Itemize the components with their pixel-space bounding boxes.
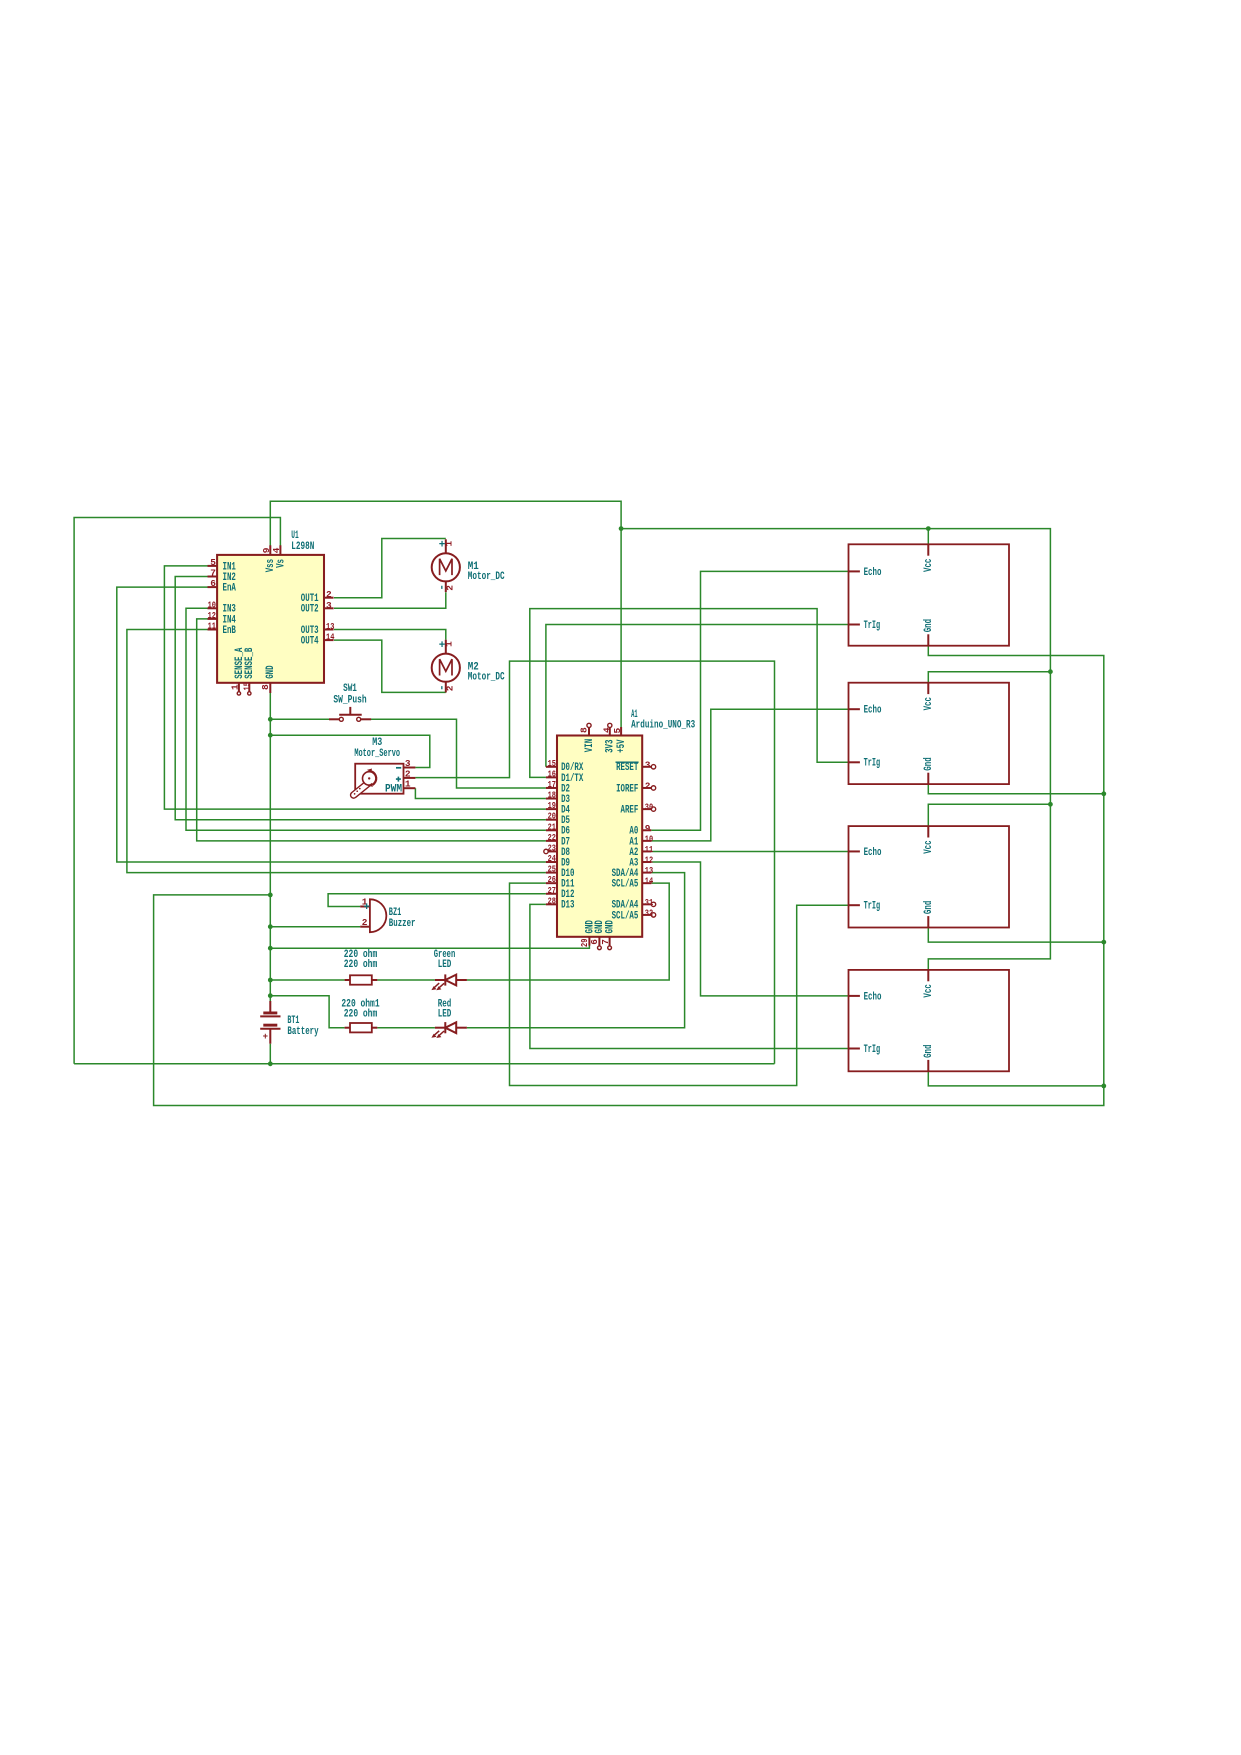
svg-text:220 ohm: 220 ohm xyxy=(344,959,378,971)
A1 pin D1/TX (16) xyxy=(546,768,584,784)
wire IN3 to D6 xyxy=(186,608,546,830)
sonar sensor 1 pin Echo xyxy=(849,567,882,579)
resistor green labels xyxy=(344,949,378,971)
wire GND to servo pin3 xyxy=(270,735,430,767)
U1 pin EnA (6) xyxy=(208,578,237,594)
svg-text:LED: LED xyxy=(438,959,452,971)
svg-text:GND: GND xyxy=(265,665,277,679)
U1 pin Vss (9) xyxy=(261,545,277,572)
svg-text:Motor_DC: Motor_DC xyxy=(468,571,505,583)
svg-text:Vcc: Vcc xyxy=(923,697,935,710)
sonar sensor 1 pin Vcc xyxy=(923,544,935,572)
sonar sensor 2 body xyxy=(849,683,1010,784)
wire A3 to Echo4 xyxy=(651,862,849,996)
A1 pin +5V (5) xyxy=(612,727,628,753)
junction at 1050.4,804.3 xyxy=(1048,802,1053,807)
svg-text:17: 17 xyxy=(548,779,557,790)
M1 labels xyxy=(468,561,505,583)
wire A0 to Echo1 xyxy=(651,571,849,830)
wire GND to red resistor xyxy=(270,996,344,1028)
sonar sensor 1 pin Trig xyxy=(849,620,881,632)
junction at 270.3,948.2 xyxy=(268,946,273,951)
svg-text:2: 2 xyxy=(326,589,332,600)
svg-text:1: 1 xyxy=(443,641,454,647)
wire GND to green resistor xyxy=(270,979,344,981)
svg-text:Echo: Echo xyxy=(864,705,882,717)
svg-text:VIN: VIN xyxy=(584,739,596,752)
wire Vcc3 link xyxy=(928,804,1050,826)
wire GND to Arduino GND29 xyxy=(270,946,589,949)
battery BT1 xyxy=(260,1001,280,1044)
wire battery bottom stub xyxy=(269,1044,271,1064)
wire OUT3 to M2 plus xyxy=(334,630,446,640)
svg-text:L298N: L298N xyxy=(291,541,314,553)
svg-text:LED: LED xyxy=(438,1009,452,1021)
A1 pin D11 (26) xyxy=(546,874,575,890)
svg-text:14: 14 xyxy=(645,876,654,887)
svg-text:4: 4 xyxy=(271,547,282,553)
junction at 621.1,528.6 xyxy=(619,526,624,531)
junction at 1103.8,1085.9 xyxy=(1101,1084,1106,1089)
svg-text:21: 21 xyxy=(548,821,557,832)
svg-text:14: 14 xyxy=(326,632,335,643)
resistor red labels xyxy=(341,999,379,1021)
svg-text:4: 4 xyxy=(601,727,612,733)
U1 pin IN4 (12) xyxy=(208,610,237,626)
sonar sensor 4 body xyxy=(849,970,1010,1071)
svg-text:11: 11 xyxy=(645,844,654,855)
junction at 270.3,995.7 xyxy=(268,993,273,998)
svg-text:SW1: SW1 xyxy=(343,683,357,695)
svg-text:25: 25 xyxy=(548,864,557,875)
U1 pin OUT3 (13) xyxy=(301,621,335,637)
wire battery plus row xyxy=(74,1063,774,1065)
wire OUT1 to M1 plus xyxy=(334,539,446,598)
junction at 270.3,735.2 xyxy=(268,733,273,738)
svg-text:23: 23 xyxy=(548,842,557,853)
U1 pin SENSE_A (1) unconnected xyxy=(230,647,246,695)
svg-text:2: 2 xyxy=(445,585,456,591)
wire EnA to D9 xyxy=(117,587,546,862)
wire A1 to Echo2 xyxy=(651,709,849,841)
svg-text:EnA: EnA xyxy=(223,583,237,595)
BT1 labels xyxy=(287,1015,318,1038)
wire D11 to Trig3 xyxy=(510,883,850,1085)
U1 pin IN2 (7) xyxy=(208,568,236,584)
wire D1/TX to Trig2 xyxy=(530,609,850,778)
svg-text:+5V: +5V xyxy=(616,739,628,753)
wire EnB to D10 xyxy=(127,630,546,873)
junction at 270.3,926.7 xyxy=(268,924,273,929)
svg-text:PWM: PWM xyxy=(385,783,402,795)
A1 pin AREF (30) xyxy=(621,802,656,817)
wire red resistor to LED xyxy=(377,1027,435,1029)
A1 pin IOREF (2) xyxy=(616,780,656,795)
switch SW1 SW_Push xyxy=(329,707,371,721)
A1 pin A1 (10) xyxy=(629,833,653,848)
M3 pin 2 plus xyxy=(396,768,416,781)
svg-text:TrIg: TrIg xyxy=(864,758,881,770)
A1 pin A0 (9) xyxy=(629,823,651,838)
svg-text:13: 13 xyxy=(326,621,335,632)
sonar sensor 2 pin Vcc xyxy=(923,683,935,711)
svg-text:15: 15 xyxy=(548,758,557,769)
svg-text:3: 3 xyxy=(326,600,332,611)
svg-text:9: 9 xyxy=(645,823,651,834)
A1 pin 3V3 (4) unconnected xyxy=(601,723,616,753)
sonar sensor 3 body xyxy=(849,826,1010,927)
svg-text:28: 28 xyxy=(548,895,557,906)
svg-text:5: 5 xyxy=(210,557,216,568)
sonar sensor 3 pin Echo xyxy=(849,847,882,859)
LED green xyxy=(431,974,467,990)
svg-text:2: 2 xyxy=(445,685,456,691)
wire Vcc2 link xyxy=(928,672,1050,683)
A1 pin GND (6) unconnected xyxy=(589,920,606,950)
LED red xyxy=(431,1022,467,1038)
green LED labels xyxy=(434,949,456,971)
U1 reference label xyxy=(291,530,314,553)
U1 pin OUT2 (3) xyxy=(301,600,334,616)
svg-text:26: 26 xyxy=(548,874,557,885)
wire +5V rail to sonar Vcc column xyxy=(621,529,1050,970)
A1 pin VIN (8) unconnected xyxy=(579,723,596,752)
svg-text:32: 32 xyxy=(645,907,654,918)
wire GND bus vertical xyxy=(269,693,271,1001)
A1 pin SCL/A5 (32) xyxy=(612,907,656,922)
wire servo PWM to D3 xyxy=(415,788,546,798)
svg-text:22: 22 xyxy=(548,832,557,843)
A1 pin D7 (22) xyxy=(546,832,570,848)
sonar sensor 4 pin Echo xyxy=(849,991,882,1003)
svg-text:220 ohm: 220 ohm xyxy=(344,1009,378,1021)
svg-text:2: 2 xyxy=(645,780,651,791)
resistor 220 ohm1 (red LED) xyxy=(345,1023,378,1032)
A1 pin A2 (11) xyxy=(629,844,653,859)
svg-text:Gnd: Gnd xyxy=(923,901,935,914)
BZ1 labels xyxy=(389,907,416,930)
svg-text:OUT2: OUT2 xyxy=(301,604,319,616)
wire Gnd4 link xyxy=(928,1070,1104,1086)
A1 pin GND (29) xyxy=(579,920,596,947)
svg-text:SCL/A5: SCL/A5 xyxy=(612,879,639,891)
svg-text:11: 11 xyxy=(208,621,217,632)
sonar sensor 1 body xyxy=(849,544,1010,645)
svg-text:30: 30 xyxy=(645,802,654,813)
A1 pin SCL/A5 (14) xyxy=(612,876,654,891)
svg-text:Vcc: Vcc xyxy=(923,840,935,853)
svg-text:AREF: AREF xyxy=(621,805,639,817)
wire GND bottom loop xyxy=(154,646,1104,1106)
A1 pin D3 (18) xyxy=(546,790,570,806)
svg-text:1: 1 xyxy=(405,779,411,790)
svg-text:Arduino_UNO_R3: Arduino_UNO_R3 xyxy=(631,719,695,731)
svg-text:Battery: Battery xyxy=(287,1026,318,1038)
svg-text:15: 15 xyxy=(241,682,252,691)
svg-text:Gnd: Gnd xyxy=(923,619,935,632)
svg-text:Gnd: Gnd xyxy=(923,757,935,770)
wire IN1 to D4 xyxy=(164,566,546,809)
svg-text:7: 7 xyxy=(210,568,216,579)
A1 pin D2 (17) xyxy=(546,779,570,795)
A1 pin SDA/A4 (31) xyxy=(612,897,656,912)
svg-text:12: 12 xyxy=(208,610,217,621)
svg-text:TrIg: TrIg xyxy=(864,620,881,632)
svg-text:Vcc: Vcc xyxy=(923,559,935,572)
motor M2 Motor_DC xyxy=(432,640,460,693)
red LED labels xyxy=(438,999,452,1021)
sonar sensor 4 pin Gnd xyxy=(923,1045,935,1072)
A1 pin D8 (23) xyxy=(544,842,570,858)
sonar sensor 3 pin Gnd xyxy=(923,901,935,928)
wire IN2 to D5 xyxy=(175,577,546,820)
sonar sensor 4 pin Vcc xyxy=(923,970,935,998)
svg-text:18: 18 xyxy=(548,790,557,801)
wire OUT2 to M1 minus xyxy=(334,592,446,608)
A1 pin A3 (12) xyxy=(629,855,653,870)
svg-text:3: 3 xyxy=(645,759,651,770)
A1 pin D9 (24) xyxy=(546,853,570,869)
wire SW1 to D2 xyxy=(371,719,546,788)
svg-text:+: + xyxy=(263,1032,268,1042)
U1 pin IN1 (5) xyxy=(208,557,237,573)
svg-text:19: 19 xyxy=(548,800,557,811)
wire buzzer pin1 to D12 xyxy=(328,894,546,907)
svg-text:Gnd: Gnd xyxy=(923,1045,935,1058)
wire D0/RX to Trig1 xyxy=(546,625,850,767)
svg-text:13: 13 xyxy=(645,865,654,876)
svg-text:RESET: RESET xyxy=(616,762,638,774)
svg-text:7: 7 xyxy=(600,939,611,945)
wire OUT4 to M2 minus xyxy=(334,640,446,692)
sonar sensor 3 pin Trig xyxy=(849,901,881,913)
wire Gnd3 link xyxy=(928,926,1104,942)
junction at 270.3,980 xyxy=(268,978,273,983)
buzzer BZ1 xyxy=(360,897,386,933)
U1 pin Vs (4) xyxy=(271,545,287,568)
A1 pin GND (7) unconnected xyxy=(600,920,617,950)
svg-text:TrIg: TrIg xyxy=(864,1044,881,1056)
svg-text:16: 16 xyxy=(548,768,557,779)
M2 labels xyxy=(468,662,505,684)
wire buzzer pin2 to GND xyxy=(270,926,360,928)
wire battery plus to Vs xyxy=(74,518,280,1064)
A1 pin D0/RX (15) xyxy=(546,758,584,774)
U1 pin SENSE_B (15) unconnected xyxy=(241,647,256,695)
junction at 1103.8,793.8 xyxy=(1101,791,1106,796)
svg-text:27: 27 xyxy=(548,885,557,896)
M3 labels xyxy=(354,737,400,760)
svg-text:Echo: Echo xyxy=(864,991,882,1003)
M3 pin 1 PWM xyxy=(385,779,415,796)
svg-text:12: 12 xyxy=(645,855,654,866)
svg-text:OUT4: OUT4 xyxy=(301,636,319,648)
sonar sensor 2 pin Echo xyxy=(849,705,882,717)
junction at 270.3,1063.8 xyxy=(268,1061,273,1066)
svg-text:SENSE_B: SENSE_B xyxy=(244,647,256,678)
A1 pin D10 (25) xyxy=(546,864,575,880)
svg-text:+: + xyxy=(363,902,370,914)
svg-text:6: 6 xyxy=(589,939,600,945)
svg-text:Motor_Servo: Motor_Servo xyxy=(354,748,400,760)
junction at 1103.8,942.1 xyxy=(1101,940,1106,945)
U1 pin IN3 (10) xyxy=(208,599,237,615)
svg-text:1: 1 xyxy=(443,541,454,547)
A1 reference label xyxy=(631,709,695,731)
junction at 270.3,719.3 xyxy=(268,717,273,722)
sonar sensor 4 pin Trig xyxy=(849,1044,881,1056)
A1 pin D12 (27) xyxy=(546,885,575,901)
wire green resistor to LED xyxy=(377,979,435,981)
servo M3 Motor_Servo body xyxy=(351,764,404,798)
svg-text:D13: D13 xyxy=(561,900,575,912)
svg-text:8: 8 xyxy=(260,684,271,690)
sonar sensor 2 pin Trig xyxy=(849,758,881,770)
SW1 labels xyxy=(333,683,366,706)
svg-text:TrIg: TrIg xyxy=(864,901,881,913)
A1 pin D13 (28) xyxy=(546,895,575,911)
sonar sensor 3 pin Vcc xyxy=(923,826,935,854)
IC A1 Arduino_UNO_R3 body xyxy=(557,736,642,937)
A1 pin RESET (3) xyxy=(616,759,656,774)
A1 pin SDA/A4 (13) xyxy=(612,865,654,880)
svg-text:Echo: Echo xyxy=(864,567,882,579)
wire Gnd2 link xyxy=(928,784,1104,794)
wire green LED to SCL/A5 xyxy=(467,883,669,980)
svg-text:5: 5 xyxy=(612,728,623,734)
svg-text:10: 10 xyxy=(645,833,654,844)
wire D13 to Trig4 xyxy=(530,904,850,1048)
wire A2 to Echo3 xyxy=(651,850,849,852)
svg-text:3: 3 xyxy=(405,758,411,769)
wire Vss to +5V net xyxy=(270,501,621,727)
svg-text:EnB: EnB xyxy=(223,625,237,637)
sonar sensor 2 pin Gnd xyxy=(923,757,935,784)
svg-text:Vs: Vs xyxy=(275,559,287,568)
motor M1 Motor_DC xyxy=(432,539,460,592)
wire GND to SW1 xyxy=(270,718,329,720)
svg-text:20: 20 xyxy=(548,811,557,822)
junction at 1050.4,671.7 xyxy=(1048,669,1053,674)
U1 pin GND (8) xyxy=(260,665,277,693)
svg-text:10: 10 xyxy=(208,599,217,610)
junction at 928.3,528.6 xyxy=(926,526,931,531)
svg-text:GND: GND xyxy=(605,920,617,934)
wire red LED to SDA/A4 xyxy=(467,873,685,1028)
resistor 220 ohm (green LED) xyxy=(345,975,378,984)
svg-text:Buzzer: Buzzer xyxy=(389,918,416,930)
svg-text:31: 31 xyxy=(645,897,654,908)
svg-text:Echo: Echo xyxy=(864,847,882,859)
svg-text:Motor_DC: Motor_DC xyxy=(468,671,505,683)
U1 pin OUT4 (14) xyxy=(301,632,335,648)
A1 pin D4 (19) xyxy=(546,800,570,816)
IC U1 L298N body xyxy=(217,555,324,683)
A1 pin D6 (21) xyxy=(546,821,570,837)
svg-text:6: 6 xyxy=(210,578,216,589)
svg-text:2: 2 xyxy=(362,917,368,928)
svg-text:24: 24 xyxy=(548,853,557,864)
junction at 270.3,894.9 xyxy=(268,893,273,898)
U1 pin OUT1 (2) xyxy=(301,589,334,605)
wire servo plus feed xyxy=(415,661,774,1064)
wire Vcc1 stub xyxy=(927,529,929,545)
svg-text:8: 8 xyxy=(579,727,590,733)
svg-text:IOREF: IOREF xyxy=(616,783,638,795)
svg-text:1: 1 xyxy=(230,684,241,690)
wire IN4 to D7 xyxy=(197,619,546,841)
sonar sensor 1 pin Gnd xyxy=(923,619,935,646)
svg-text:SW_Push: SW_Push xyxy=(333,694,366,706)
A1 pin D5 (20) xyxy=(546,811,570,827)
svg-text:Vcc: Vcc xyxy=(923,984,935,997)
M3 pin 3 minus xyxy=(396,758,415,769)
U1 pin EnB (11) xyxy=(208,621,237,637)
